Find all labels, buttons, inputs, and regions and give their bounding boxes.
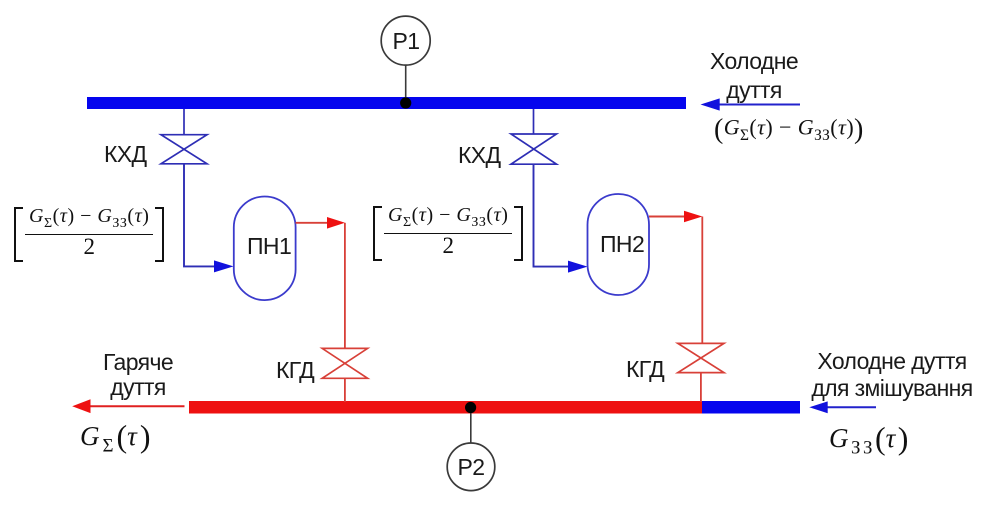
formula GΣ(τ) bottom left <box>80 418 150 457</box>
formula bracket fraction left: [(GΣ(τ)−GЗЗ(τ))/2] <box>14 207 164 263</box>
valve КХД1 (cold blast valve, left) <box>161 135 207 164</box>
label КГД (left hot valve) <box>276 357 314 383</box>
hot blast outflow arrow (red, bottom left) <box>72 399 184 413</box>
label КГД (right hot valve) <box>626 356 664 382</box>
gauge P1 circle <box>381 16 430 65</box>
arrowhead right of PN2 (red) <box>684 211 702 223</box>
wire from valve KXD1 down and elbow right to PN1 <box>184 164 215 267</box>
wire from valve KXD2 down and elbow right to PN2 <box>534 164 569 266</box>
formula bracket fraction middle: [(GΣ(τ)−GЗЗ(τ))/2] <box>373 206 523 262</box>
cold blast mixing pipe segment (bottom right, blue) <box>702 401 800 414</box>
label P2 (gauge 2) <box>446 454 496 480</box>
label ПН2 (heater 2) <box>600 231 644 257</box>
valve КГД1 (hot blast valve, left) <box>322 348 367 378</box>
label Холодне дуття для змішування (bottom right, two lines) <box>792 348 991 402</box>
label ПН1 (heater 1) <box>247 233 291 259</box>
hot blast main pipe (bottom, red) <box>189 401 702 414</box>
wire from top pipe to valve KXD1 <box>183 109 185 135</box>
arrowhead into PN1 (blue) <box>214 260 234 272</box>
formula (GΣ(τ) − GЗЗ(τ)) top right <box>714 114 864 146</box>
node junction dot at P2 tap <box>465 402 476 413</box>
arrowhead right of PN1 (red) <box>327 217 345 229</box>
red wire down from PN2 corner to valve KGD2 <box>701 217 703 344</box>
label Гаряче дуття (left, two lines) <box>68 350 208 400</box>
gauge P2 circle <box>447 443 495 491</box>
red wire out of PN2 <box>649 216 685 218</box>
formula GЗЗ(τ) bottom right <box>829 420 908 459</box>
arrowhead into PN2 (blue) <box>568 261 588 273</box>
gauge P1 connector line <box>405 66 407 104</box>
node junction dot at P1 tap <box>400 97 411 108</box>
red wire from valve KGD1 to hot pipe <box>344 378 346 402</box>
red wire out of PN1 <box>296 222 328 224</box>
cold blast inflow arrow (blue, top right) <box>701 98 801 110</box>
valve КГД2 (hot blast valve, right) <box>678 343 724 372</box>
red wire from valve KGD2 to hot pipe <box>700 373 702 402</box>
wire from top pipe to valve KXD2 <box>533 109 535 134</box>
gauge P2 connector line <box>470 407 472 443</box>
valve КХД2 (cold blast valve, right) <box>511 134 557 164</box>
cold blast main pipe (top, blue) <box>87 97 686 109</box>
label P1 (gauge 1) <box>381 28 431 54</box>
label КХД (right cold valve) <box>458 142 501 168</box>
heater vessel ПН1 (stadium shape) <box>234 197 296 301</box>
mixing cold blast inflow arrow (blue, bottom right) <box>809 401 876 413</box>
label КХД (left cold valve) <box>104 141 147 167</box>
red wire down from PN1 corner to valve KGD1 <box>344 223 346 348</box>
label Холодне дуття (top right, two lines) <box>684 47 824 105</box>
heater vessel ПН2 (stadium shape) <box>588 194 650 295</box>
